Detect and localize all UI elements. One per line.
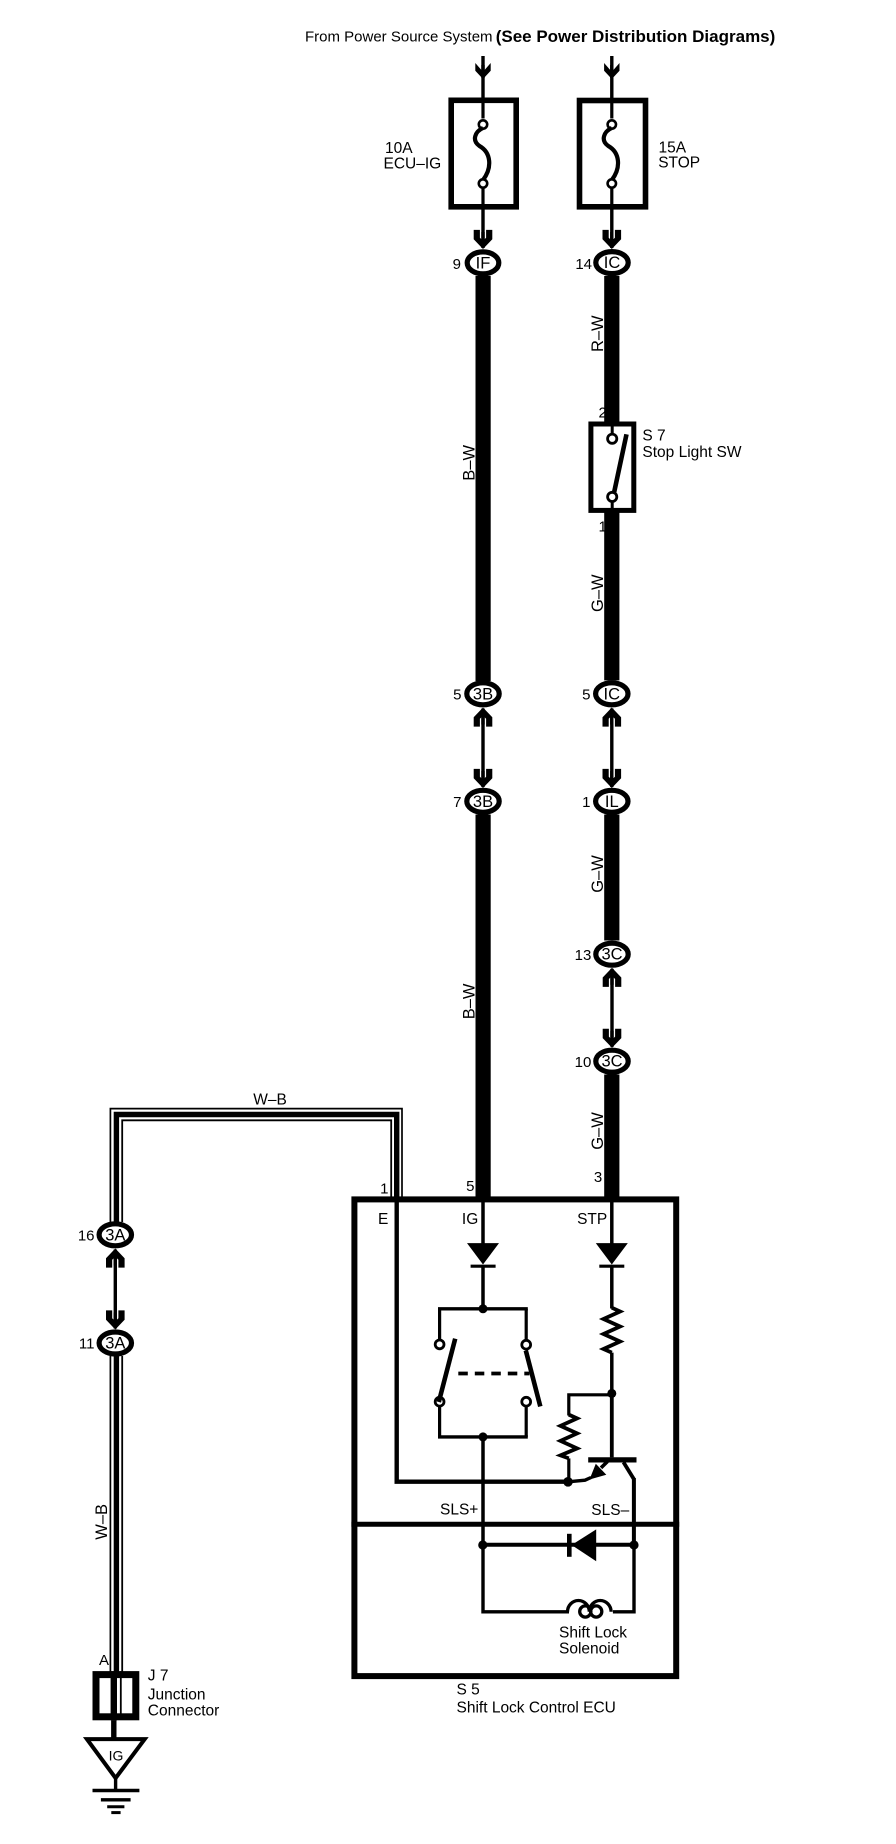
wire: R1 to transistor node (610, 1353, 614, 1395)
svg-text:From Power Source System: From Power Source System (305, 28, 493, 45)
svg-text:Junction: Junction (148, 1687, 206, 1704)
wire: fuse ECU-IG to connector IF (474, 206, 493, 249)
wire: junction 3A pair link (106, 1249, 125, 1330)
label: J7 Junction Connector (148, 1668, 220, 1720)
label: S5 Shift Lock Control ECU (457, 1682, 616, 1717)
svg-text:11: 11 (79, 1336, 95, 1353)
svg-text:W–B: W–B (253, 1092, 287, 1109)
svg-text:3A: 3A (105, 1226, 125, 1244)
label: Shift Lock Solenoid (559, 1625, 627, 1658)
wire W-B: ground run from ECU pin 1 to junction 3A (triple-line style) (110, 1109, 402, 1222)
svg-text:B–W: B–W (461, 983, 479, 1019)
svg-text:Stop Light SW: Stop Light SW (642, 444, 741, 461)
svg-text:9: 9 (453, 256, 461, 273)
svg-text:1: 1 (380, 1181, 388, 1198)
wire B-W: connector IF to junction 3B (476, 276, 491, 681)
svg-text:G–W: G–W (589, 855, 607, 893)
connector 9 IF (453, 252, 499, 274)
svg-text:16: 16 (78, 1228, 95, 1245)
connector 14 IC (575, 252, 628, 274)
svg-text:7: 7 (453, 794, 461, 811)
wire: R2 to emitter node (567, 1458, 570, 1482)
svg-text:Shift Lock Control ECU: Shift Lock Control ECU (457, 1700, 616, 1717)
svg-text:IC: IC (604, 254, 621, 272)
wire: fuse STOP to connector IC (603, 206, 622, 249)
svg-text:Shift Lock: Shift Lock (559, 1625, 627, 1642)
svg-text:S 5: S 5 (457, 1682, 480, 1699)
node: STP/base junction (607, 1389, 616, 1398)
svg-text:13: 13 (575, 947, 592, 964)
svg-text:10A: 10A (385, 140, 413, 157)
wire: junction 3B pair link (474, 708, 493, 789)
svg-text:IG: IG (462, 1211, 478, 1228)
ground IG (87, 1739, 145, 1813)
svg-text:ECU–IG: ECU–IG (384, 156, 442, 173)
fuse 15A STOP (580, 101, 646, 207)
wire: SLS+ down to solenoid bottom (483, 1546, 569, 1612)
svg-text:3B: 3B (473, 685, 493, 703)
wire: flyback diode link (483, 1543, 634, 1547)
solenoid L1 (shift lock solenoid) (568, 1601, 612, 1618)
switch S7 Stop Light SW (591, 424, 634, 510)
connector 13 3C (575, 943, 629, 965)
svg-text:E: E (378, 1211, 388, 1228)
connector 11 3A (79, 1332, 132, 1354)
connector 16 3A (78, 1224, 132, 1246)
svg-text:IG: IG (109, 1748, 124, 1764)
wire W-B: junction 3A to junction connector J7 (triple-line style) (110, 1356, 122, 1672)
svg-text:G–W: G–W (589, 574, 607, 612)
diode D2 (STP) (596, 1243, 628, 1266)
label: S7 Stop Light SW (642, 428, 741, 462)
connector 1 IL (582, 790, 628, 812)
resistor R1 (604, 1308, 621, 1353)
wire: power feed into fuse ECU-IG (475, 56, 490, 99)
wire: IG line into diode (481, 1202, 485, 1245)
svg-text:STP: STP (577, 1211, 607, 1228)
junction connector J7 (96, 1671, 136, 1720)
wire SLS+ : relay to solenoid (481, 1437, 485, 1546)
label: 10A ECU-IG (384, 140, 442, 173)
wire: E line inside ECU (397, 1199, 569, 1482)
resistor R2 (561, 1415, 578, 1459)
wire: STP line into diode (610, 1202, 614, 1245)
fuse 10A ECU-IG (451, 100, 516, 207)
svg-text:3A: 3A (105, 1335, 125, 1353)
node: solenoid + junction (478, 1540, 487, 1549)
label: 15A STOP (658, 140, 700, 172)
wire: J7 to ground (111, 1720, 116, 1740)
svg-text:1: 1 (582, 794, 590, 811)
wire: power feed into fuse STOP (604, 56, 619, 99)
svg-text:B–W: B–W (461, 445, 479, 481)
wire: junction to resistor R2 (569, 1395, 612, 1416)
svg-text:5: 5 (466, 1178, 474, 1195)
wire G-W: junction 3C to ECU pin 3 (604, 1075, 619, 1202)
svg-text:3C: 3C (601, 1053, 622, 1071)
svg-text:IF: IF (476, 255, 491, 273)
wire: diode to resistor R1 (610, 1266, 614, 1309)
wire SLS- : collector to solenoid (632, 1478, 636, 1546)
svg-text:3B: 3B (473, 793, 493, 811)
wire B-W: junction 3B to ECU pin 5 (476, 815, 491, 1202)
svg-text:A: A (99, 1652, 109, 1669)
wire G-W: connector IL to junction 3C (604, 815, 619, 941)
svg-text:5: 5 (582, 687, 590, 704)
svg-text:W–B: W–B (93, 1504, 111, 1540)
svg-text:G–W: G–W (589, 1112, 607, 1150)
wire: solenoid to SLS- (613, 1546, 634, 1612)
transistor Q1 (588, 1393, 636, 1479)
svg-text:10: 10 (575, 1054, 592, 1071)
diode D3 (flyback) (569, 1529, 596, 1561)
svg-text:5: 5 (453, 687, 461, 704)
relay switch (shift lock) (435, 1309, 540, 1437)
svg-text:IL: IL (605, 793, 619, 811)
svg-text:14: 14 (575, 256, 592, 273)
svg-text:(See Power Distribution Diagra: (See Power Distribution Diagrams) (496, 27, 776, 46)
connector 10 3C (575, 1050, 629, 1072)
svg-text:3C: 3C (601, 946, 622, 964)
svg-text:3: 3 (594, 1169, 602, 1186)
wire: connector IC to IL link (603, 708, 622, 789)
ECU S5 box (351, 1199, 679, 1676)
svg-text:SLS+: SLS+ (440, 1502, 478, 1519)
wire: junction 3C pair link (603, 968, 622, 1048)
wire G-W: stop light switch to connector IC2 (604, 510, 619, 680)
svg-text:Solenoid: Solenoid (559, 1641, 619, 1658)
connector 5 IC (582, 683, 628, 705)
node: emitter junction (563, 1477, 573, 1487)
svg-text:2: 2 (598, 405, 606, 422)
node: solenoid - junction (629, 1540, 638, 1549)
wire: diode to relay (481, 1266, 485, 1309)
connector 5 3B (453, 683, 499, 705)
connector 7 3B (453, 790, 499, 812)
diode D1 (IG) (467, 1243, 499, 1266)
node: relay top junction (479, 1304, 488, 1313)
svg-text:J 7: J 7 (148, 1668, 169, 1685)
svg-text:IC: IC (604, 685, 621, 703)
wire R-W: connector IC to stop light switch (604, 276, 619, 423)
svg-text:R–W: R–W (589, 315, 607, 352)
svg-text:STOP: STOP (658, 155, 700, 172)
node: relay bottom junction (479, 1432, 488, 1441)
svg-text:Connector: Connector (148, 1703, 220, 1720)
svg-text:SLS–: SLS– (591, 1502, 629, 1519)
svg-text:S 7: S 7 (642, 428, 665, 445)
